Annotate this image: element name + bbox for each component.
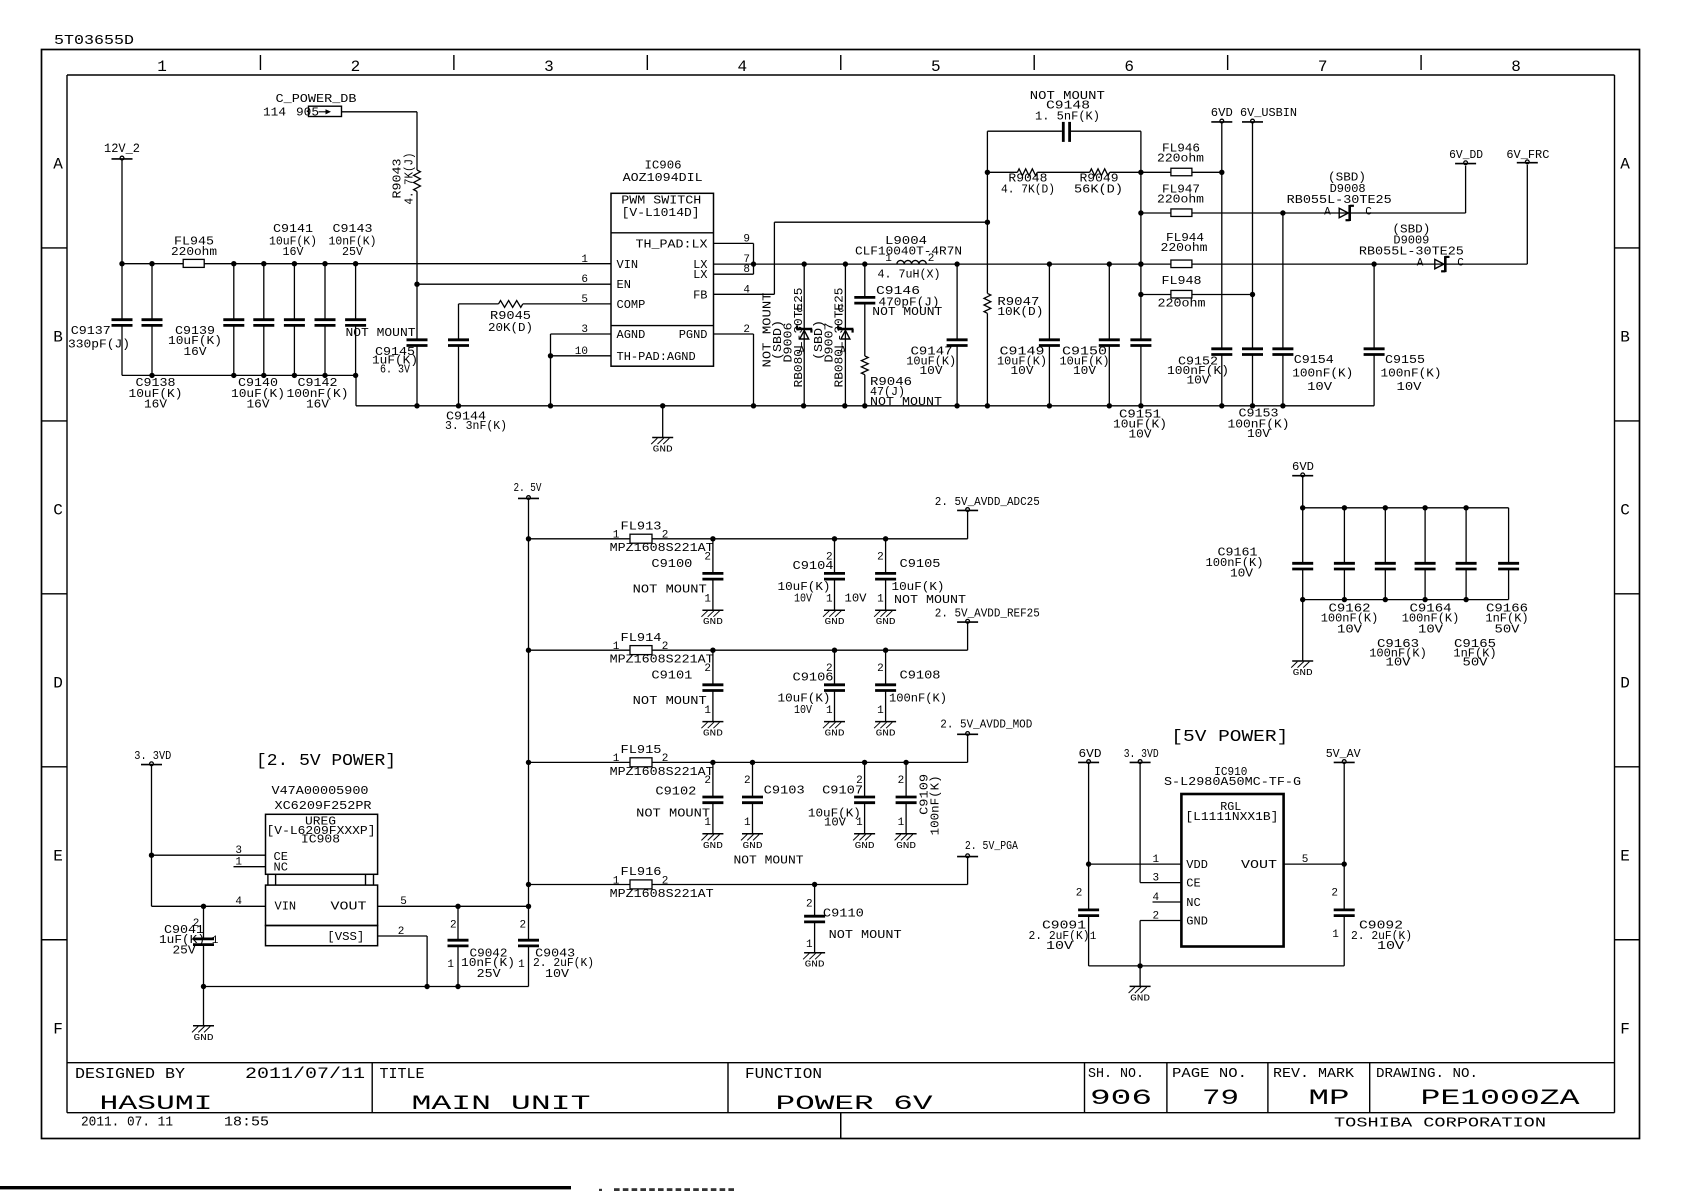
svg-text:FL916: FL916	[621, 865, 662, 879]
svg-text:3. 3VD: 3. 3VD	[134, 749, 171, 763]
svg-text:PGND: PGND	[679, 328, 708, 342]
svg-text:220ohm: 220ohm	[171, 245, 217, 259]
svg-text:C9105: C9105	[900, 557, 941, 571]
svg-text:10V: 10V	[1247, 427, 1271, 441]
svg-text:1: 1	[1152, 854, 1159, 866]
svg-text:1: 1	[1332, 929, 1339, 941]
svg-text:100nF(K): 100nF(K)	[1292, 367, 1353, 381]
svg-text:C: C	[1365, 206, 1372, 218]
svg-text:TH_PAD:LX: TH_PAD:LX	[636, 237, 708, 251]
svg-text:PE1000ZA: PE1000ZA	[1421, 1086, 1581, 1111]
svg-text:F: F	[53, 1020, 63, 1038]
svg-text:DESIGNED BY: DESIGNED BY	[75, 1066, 185, 1083]
svg-text:[VSS]: [VSS]	[327, 930, 364, 944]
svg-text:10V: 10V	[1377, 939, 1405, 953]
svg-text:1: 1	[581, 254, 588, 266]
svg-text:GND: GND	[876, 616, 896, 627]
svg-text:B: B	[53, 328, 63, 346]
svg-text:D: D	[53, 674, 63, 692]
svg-text:6V_FRC: 6V_FRC	[1506, 148, 1549, 162]
svg-text:4: 4	[1152, 892, 1159, 904]
svg-text:3. 3VD: 3. 3VD	[1124, 747, 1159, 761]
svg-text:LX: LX	[693, 268, 707, 282]
svg-text:2: 2	[1076, 888, 1083, 900]
svg-text:S-L2980A50MC-TF-G: S-L2980A50MC-TF-G	[1164, 775, 1301, 789]
svg-text:10V: 10V	[794, 591, 813, 605]
svg-text:NOT MOUNT: NOT MOUNT	[829, 928, 902, 942]
svg-text:1: 1	[826, 705, 833, 717]
svg-text:10V: 10V	[920, 364, 944, 378]
svg-text:TH-PAD:AGND: TH-PAD:AGND	[617, 350, 696, 364]
svg-text:2: 2	[928, 253, 935, 265]
svg-text:C9103: C9103	[764, 784, 805, 798]
svg-text:220ohm: 220ohm	[1157, 152, 1204, 166]
svg-text:1: 1	[613, 530, 620, 542]
svg-text:C9106: C9106	[793, 671, 834, 685]
svg-text:6: 6	[1124, 58, 1134, 76]
svg-text:18:55: 18:55	[224, 1115, 269, 1131]
svg-text:F: F	[1620, 1020, 1630, 1038]
svg-text:[2. 5V POWER]: [2. 5V POWER]	[256, 752, 396, 771]
svg-text:NC: NC	[274, 861, 288, 875]
svg-text:12V_2: 12V_2	[104, 141, 140, 156]
svg-text:2: 2	[450, 919, 457, 931]
svg-text:10V: 10V	[1418, 622, 1444, 636]
svg-text:A: A	[1324, 206, 1331, 218]
svg-text:2: 2	[1152, 911, 1159, 923]
svg-text:8: 8	[1511, 58, 1521, 76]
svg-text:50V: 50V	[1495, 622, 1521, 636]
svg-text:1: 1	[1090, 931, 1097, 943]
svg-text:10V: 10V	[1397, 380, 1423, 394]
svg-text:220ohm: 220ohm	[1157, 193, 1204, 207]
svg-text:VOUT: VOUT	[1241, 858, 1277, 872]
svg-text:1: 1	[877, 593, 884, 605]
svg-text:1: 1	[877, 705, 884, 717]
svg-text:905: 905	[296, 106, 319, 120]
svg-text:NOT MOUNT: NOT MOUNT	[346, 326, 416, 340]
svg-text:4. 7uH(X): 4. 7uH(X)	[878, 267, 941, 281]
svg-text:10V: 10V	[545, 967, 570, 981]
svg-text:1: 1	[157, 58, 167, 76]
svg-text:2: 2	[877, 663, 884, 675]
svg-text:2. 5V_AVDD_MOD: 2. 5V_AVDD_MOD	[940, 717, 1032, 731]
svg-text:4: 4	[738, 58, 748, 76]
svg-text:V47A00005900: V47A00005900	[272, 784, 369, 798]
svg-text:MAIN UNIT: MAIN UNIT	[412, 1093, 591, 1116]
svg-text:IC908: IC908	[301, 833, 340, 847]
svg-text:[V-L1014D]: [V-L1014D]	[622, 206, 700, 220]
svg-text:GND: GND	[653, 444, 673, 455]
svg-text:TITLE: TITLE	[380, 1066, 425, 1083]
svg-text:1: 1	[826, 593, 833, 605]
svg-text:GND: GND	[1130, 992, 1150, 1003]
svg-text:25V: 25V	[477, 967, 502, 981]
svg-text:1: 1	[613, 753, 620, 765]
svg-text:1: 1	[235, 857, 242, 869]
svg-text:50V: 50V	[1463, 655, 1489, 669]
svg-text:4. 7K(D): 4. 7K(D)	[1001, 183, 1055, 197]
svg-text:220ohm: 220ohm	[1158, 297, 1206, 311]
svg-text:6: 6	[581, 274, 588, 286]
svg-text:E: E	[1620, 847, 1630, 865]
svg-text:GND: GND	[703, 616, 723, 627]
svg-text:POWER 6V: POWER 6V	[776, 1093, 933, 1116]
svg-text:2: 2	[744, 775, 751, 787]
svg-text:3: 3	[235, 845, 242, 857]
svg-text:5V_AV: 5V_AV	[1326, 747, 1362, 761]
svg-text:RB055L-30TE25: RB055L-30TE25	[1359, 244, 1464, 258]
svg-text:1: 1	[744, 817, 751, 829]
svg-text:5: 5	[931, 58, 941, 76]
svg-text:C: C	[1620, 501, 1630, 519]
svg-text:16V: 16V	[247, 398, 271, 412]
svg-text:10V: 10V	[794, 703, 813, 717]
svg-text:NOT MOUNT: NOT MOUNT	[872, 305, 942, 319]
svg-text:100nF(K): 100nF(K)	[1381, 367, 1442, 381]
svg-text:2. 5V_PGA: 2. 5V_PGA	[965, 839, 1019, 853]
svg-text:C9100: C9100	[651, 557, 692, 571]
svg-text:CLF10040T-4R7N: CLF10040T-4R7N	[855, 245, 962, 259]
svg-text:NOT MOUNT: NOT MOUNT	[870, 395, 942, 409]
svg-text:A: A	[1417, 258, 1424, 270]
svg-text:10V: 10V	[1046, 939, 1074, 953]
svg-text:DRAWING. NO.: DRAWING. NO.	[1376, 1066, 1478, 1082]
svg-text:5: 5	[581, 294, 588, 306]
svg-text:FL913: FL913	[621, 520, 662, 534]
svg-text:C9104: C9104	[793, 559, 834, 573]
svg-text:AGND: AGND	[617, 328, 646, 342]
svg-text:GND: GND	[1293, 667, 1313, 678]
svg-text:1: 1	[613, 641, 620, 653]
svg-text:114: 114	[263, 106, 286, 120]
svg-text:16V: 16V	[144, 398, 168, 412]
svg-text:MP: MP	[1309, 1086, 1350, 1111]
svg-text:C9155: C9155	[1385, 353, 1425, 367]
svg-text:RB080L-30TE25: RB080L-30TE25	[792, 288, 806, 388]
svg-text:20K(D): 20K(D)	[488, 321, 533, 335]
svg-text:NOT MOUNT: NOT MOUNT	[894, 593, 966, 607]
svg-text:56K(D): 56K(D)	[1074, 183, 1123, 197]
svg-text:GND: GND	[825, 616, 845, 627]
svg-text:2: 2	[806, 899, 813, 911]
svg-text:6VD: 6VD	[1211, 106, 1233, 120]
svg-text:PAGE NO.: PAGE NO.	[1172, 1066, 1247, 1082]
svg-text:10V: 10V	[1307, 380, 1333, 394]
svg-text:FL914: FL914	[621, 631, 662, 645]
svg-text:VDD: VDD	[1186, 858, 1208, 872]
svg-text:C9108: C9108	[900, 669, 941, 683]
svg-text:MPZ1608S221AT: MPZ1608S221AT	[610, 765, 714, 779]
svg-text:1: 1	[898, 817, 905, 829]
svg-text:[L1111NXX1B]: [L1111NXX1B]	[1185, 810, 1278, 824]
svg-text:MPZ1608S221AT: MPZ1608S221AT	[610, 887, 714, 901]
svg-text:6. 3V: 6. 3V	[380, 363, 411, 377]
svg-text:C9110: C9110	[823, 907, 864, 921]
svg-text:GND: GND	[805, 959, 825, 970]
svg-text:NOT MOUNT: NOT MOUNT	[633, 694, 707, 708]
svg-text:COMP: COMP	[617, 298, 646, 312]
svg-text:3: 3	[1152, 873, 1159, 885]
svg-text:TOSHIBA CORPORATION: TOSHIBA CORPORATION	[1334, 1116, 1546, 1132]
svg-text:FL948: FL948	[1162, 274, 1202, 288]
svg-text:6V_USBIN: 6V_USBIN	[1240, 106, 1297, 120]
svg-text:GND: GND	[855, 840, 875, 851]
svg-text:2: 2	[662, 875, 669, 887]
svg-text:2: 2	[398, 926, 405, 938]
svg-text:VIN: VIN	[617, 258, 639, 272]
svg-text:10V: 10V	[1129, 427, 1153, 441]
svg-text:C9137: C9137	[71, 324, 111, 338]
svg-text:6V_DD: 6V_DD	[1449, 148, 1483, 162]
svg-text:GND: GND	[194, 1032, 214, 1043]
svg-text:XC6209F252PR: XC6209F252PR	[275, 799, 372, 813]
svg-text:1. 5nF(K): 1. 5nF(K)	[1035, 109, 1100, 123]
svg-text:2. 5V_AVDD_ADC25: 2. 5V_AVDD_ADC25	[935, 495, 1040, 509]
svg-text:2: 2	[704, 552, 711, 564]
svg-text:EN: EN	[617, 278, 631, 292]
svg-text:10V: 10V	[845, 591, 868, 605]
svg-text:REV. MARK: REV. MARK	[1273, 1066, 1355, 1082]
svg-text:3: 3	[544, 58, 554, 76]
svg-text:A: A	[1620, 156, 1630, 174]
svg-text:HASUMI: HASUMI	[100, 1093, 213, 1116]
svg-text:330pF(J): 330pF(J)	[68, 338, 130, 352]
svg-text:2: 2	[898, 775, 905, 787]
svg-text:GND: GND	[896, 840, 916, 851]
svg-text:100nF(K): 100nF(K)	[929, 775, 943, 835]
svg-text:E: E	[53, 847, 63, 865]
svg-text:C9102: C9102	[655, 785, 696, 799]
svg-text:1: 1	[885, 253, 892, 265]
svg-text:1: 1	[806, 939, 813, 951]
svg-text:6VD: 6VD	[1079, 747, 1102, 761]
svg-text:[5V POWER]: [5V POWER]	[1171, 728, 1288, 747]
svg-text:2: 2	[662, 641, 669, 653]
svg-text:FL915: FL915	[621, 743, 662, 757]
svg-text:NOT MOUNT: NOT MOUNT	[734, 853, 804, 867]
svg-text:6VD: 6VD	[1292, 460, 1314, 474]
svg-text:CE: CE	[1186, 877, 1200, 891]
svg-text:10V: 10V	[1337, 622, 1363, 636]
svg-text:A: A	[53, 156, 63, 174]
svg-text:C: C	[53, 501, 63, 519]
svg-text:220ohm: 220ohm	[1161, 241, 1208, 255]
svg-text:VIN: VIN	[275, 899, 297, 913]
svg-text:GND: GND	[703, 840, 723, 851]
svg-text:2011/07/11: 2011/07/11	[245, 1065, 365, 1083]
svg-text:2: 2	[704, 663, 711, 675]
svg-text:4. 7K(J): 4. 7K(J)	[403, 153, 417, 205]
svg-text:MPZ1608S221AT: MPZ1608S221AT	[610, 653, 714, 667]
svg-text:2: 2	[1331, 888, 1338, 900]
svg-text:B: B	[1620, 328, 1630, 346]
svg-text:16V: 16V	[184, 345, 208, 359]
svg-text:GND: GND	[743, 840, 763, 851]
svg-text:C: C	[1457, 258, 1464, 270]
svg-text:10V: 10V	[1011, 364, 1035, 378]
svg-text:RB055L-30TE25: RB055L-30TE25	[1287, 193, 1392, 207]
svg-text:RB080L-30TE25: RB080L-30TE25	[832, 288, 846, 388]
svg-text:7: 7	[1318, 58, 1328, 76]
svg-text:10V: 10V	[1230, 567, 1254, 581]
svg-text:16V: 16V	[306, 398, 330, 412]
svg-text:79: 79	[1202, 1086, 1239, 1111]
svg-text:2011. 07. 11: 2011. 07. 11	[81, 1115, 173, 1131]
svg-text:AOZ1094DIL: AOZ1094DIL	[623, 171, 703, 185]
svg-text:NOT MOUNT: NOT MOUNT	[633, 582, 707, 596]
svg-text:2: 2	[351, 58, 361, 76]
svg-text:FUNCTION: FUNCTION	[745, 1066, 822, 1083]
svg-text:FB: FB	[693, 288, 707, 302]
svg-text:2: 2	[877, 552, 884, 564]
svg-text:NOT MOUNT: NOT MOUNT	[636, 806, 710, 820]
svg-text:10K(D): 10K(D)	[997, 305, 1043, 319]
svg-text:SH. NO.: SH. NO.	[1088, 1066, 1144, 1082]
svg-text:2: 2	[704, 775, 711, 787]
svg-text:10V: 10V	[1187, 374, 1211, 388]
svg-text:25V: 25V	[173, 943, 197, 957]
svg-text:1: 1	[613, 875, 620, 887]
svg-text:GND: GND	[825, 728, 845, 739]
svg-text:16V: 16V	[283, 245, 305, 259]
svg-text:C9107: C9107	[822, 784, 863, 798]
svg-text:3. 3nF(K): 3. 3nF(K)	[445, 419, 507, 433]
svg-text:5T03655D: 5T03655D	[54, 33, 134, 49]
svg-text:C9154: C9154	[1294, 353, 1334, 367]
svg-text:1: 1	[212, 935, 219, 947]
svg-text:1: 1	[447, 959, 454, 971]
svg-text:2: 2	[519, 919, 526, 931]
svg-text:2. 5V_AVDD_REF25: 2. 5V_AVDD_REF25	[935, 607, 1040, 621]
svg-text:D: D	[1620, 674, 1630, 692]
svg-text:10V: 10V	[824, 816, 847, 830]
svg-text:10V: 10V	[1073, 364, 1097, 378]
svg-text:25V: 25V	[342, 245, 364, 259]
svg-text:GND: GND	[703, 728, 723, 739]
svg-text:906: 906	[1090, 1086, 1152, 1111]
svg-text:2: 2	[662, 530, 669, 542]
svg-text:2: 2	[662, 753, 669, 765]
svg-text:C9101: C9101	[651, 669, 692, 683]
svg-text:GND: GND	[1186, 915, 1208, 929]
svg-text:NC: NC	[1186, 896, 1200, 910]
svg-text:MPZ1608S221AT: MPZ1608S221AT	[610, 541, 714, 555]
svg-text:GND: GND	[876, 728, 896, 739]
svg-text:10V: 10V	[1386, 655, 1412, 669]
svg-text:C_POWER_DB: C_POWER_DB	[276, 92, 357, 106]
svg-text:2. 5V: 2. 5V	[514, 481, 543, 495]
svg-text:100nF(K): 100nF(K)	[889, 692, 947, 706]
svg-text:VOUT: VOUT	[331, 899, 367, 913]
svg-text:1: 1	[518, 959, 525, 971]
